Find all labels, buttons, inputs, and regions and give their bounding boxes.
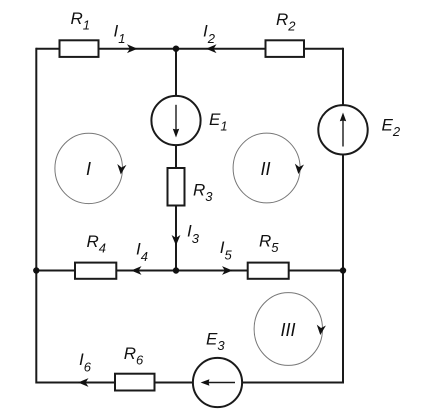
loop II arrow: [233, 133, 304, 203]
svg-text:E3: E3: [206, 329, 225, 353]
svg-text:R1: R1: [71, 9, 91, 33]
wire left vertical: [35, 48, 37, 384]
resistor R1: [60, 40, 99, 57]
resistor R6: [115, 374, 155, 391]
resistor R2: [266, 40, 305, 57]
svg-text:I2: I2: [203, 21, 216, 46]
wire right vertical: [342, 48, 344, 384]
resistor R5: [248, 263, 289, 279]
current arrow I5: [222, 266, 233, 275]
node top-center junction: [173, 46, 179, 52]
svg-text:R2: R2: [276, 10, 296, 34]
svg-text:I4: I4: [136, 240, 148, 265]
node right-middle junction: [340, 267, 346, 273]
resistor R4: [75, 263, 116, 279]
svg-text:I5: I5: [220, 238, 233, 263]
resistor R3: [168, 168, 185, 206]
loop III arrow: [254, 293, 326, 366]
node center-middle junction: [173, 267, 179, 273]
svg-text:III: III: [281, 320, 296, 340]
current arrow I1: [127, 44, 138, 53]
svg-text:E2: E2: [382, 116, 401, 140]
svg-text:E1: E1: [209, 110, 228, 134]
svg-text:I: I: [86, 159, 91, 179]
wire bottom horizontal: [36, 382, 343, 384]
svg-text:II: II: [261, 159, 271, 179]
loop I arrow: [55, 133, 127, 203]
svg-text:I1: I1: [114, 21, 126, 46]
svg-text:R3: R3: [193, 180, 213, 204]
source E3: [193, 358, 242, 407]
node left-middle junction: [33, 267, 39, 273]
current arrow I4: [131, 266, 142, 275]
svg-text:I3: I3: [187, 222, 200, 247]
wire top horizontal: [36, 48, 343, 50]
svg-text:R5: R5: [259, 232, 279, 256]
current arrow I2: [206, 44, 217, 53]
current arrow I3: [172, 235, 181, 246]
source E1: [151, 96, 200, 145]
current arrow I6: [78, 378, 89, 387]
wire middle horizontal: [36, 270, 343, 272]
source E2: [318, 105, 367, 154]
svg-text:R4: R4: [87, 232, 107, 256]
svg-text:I6: I6: [79, 350, 92, 375]
svg-text:R6: R6: [124, 344, 144, 368]
wire center vertical: [175, 49, 177, 271]
